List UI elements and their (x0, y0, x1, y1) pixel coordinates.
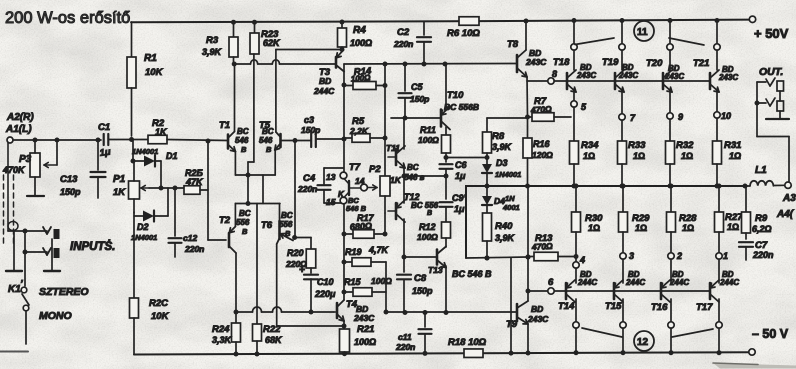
svg-text:243C: 243C (718, 73, 738, 82)
svg-text:47K: 47K (185, 177, 204, 187)
wire C3 tap (294, 141, 296, 238)
svg-text:243C: 243C (525, 57, 547, 67)
resistor R11 (418, 125, 451, 158)
svg-text:A2(R): A2(R) (6, 112, 34, 123)
svg-text:220n: 220n (393, 39, 413, 49)
svg-text:244C: 244C (577, 278, 597, 287)
svg-text:14: 14 (355, 176, 365, 186)
wire T3 emitter bus (344, 62, 517, 72)
svg-text:’: ’ (20, 279, 23, 290)
svg-text:2: 2 (676, 251, 682, 261)
pot P2 (368, 164, 402, 213)
resistor R30 (572, 184, 604, 263)
transistor T7 (338, 162, 367, 213)
svg-text:10K: 10K (151, 311, 170, 322)
svg-text:+ 50V: + 50V (754, 26, 789, 41)
node 8 (548, 69, 557, 84)
svg-text:BC: BC (237, 127, 249, 136)
svg-text:3,3K: 3,3K (212, 335, 233, 345)
transistor T10 (441, 90, 479, 130)
svg-text:T20: T20 (646, 58, 663, 69)
svg-text:546: 546 (235, 136, 249, 145)
resistor R6 (447, 17, 480, 39)
svg-text:R2C: R2C (149, 298, 168, 309)
resistor R21 (340, 321, 377, 356)
resistor R13 (528, 233, 579, 261)
resistor R24 (212, 312, 241, 357)
svg-text:1K: 1K (155, 127, 168, 137)
resistor R15 (344, 276, 392, 296)
capacitor C13 (60, 140, 106, 198)
svg-text:C13: C13 (60, 174, 78, 185)
transistor T17 (696, 270, 739, 313)
svg-text:T18: T18 (553, 57, 570, 68)
wire long feedback bottom (236, 307, 334, 312)
resistor R2 (132, 118, 228, 144)
svg-text:220n: 220n (184, 244, 204, 254)
svg-text:150p: 150p (60, 187, 81, 197)
OUT connector (755, 66, 790, 137)
svg-text:R33: R33 (628, 140, 646, 151)
svg-text:R18 10Ω: R18 10Ω (448, 337, 487, 348)
transistor T18 (553, 57, 596, 92)
resistor R17 (344, 213, 375, 238)
svg-text:R19: R19 (345, 247, 362, 257)
scan smudge (0, 352, 796, 369)
transistor T8 (507, 39, 547, 77)
svg-text:243C: 243C (527, 314, 549, 324)
svg-text:244C: 244C (669, 278, 689, 287)
+50V rail (131, 16, 756, 22)
pot P3 (2, 140, 57, 196)
wire aux drop (509, 258, 514, 356)
svg-text:BC: BC (262, 127, 274, 136)
resistor R3 (202, 20, 238, 64)
svg-text:9: 9 (678, 112, 683, 122)
svg-text:A1(L): A1(L) (5, 124, 32, 135)
terminal A1/A2 input (5, 112, 34, 143)
svg-text:1K: 1K (390, 175, 402, 185)
diode D2 (131, 188, 168, 242)
wire input to C1 (13, 138, 101, 143)
svg-text:B: B (242, 227, 248, 236)
svg-text:R8: R8 (492, 131, 505, 142)
INPUTS label (70, 240, 115, 253)
transistor T2 (219, 209, 251, 253)
svg-text:243C: 243C (618, 71, 638, 80)
pot P1 (113, 161, 149, 213)
svg-text:244C: 244C (719, 278, 739, 287)
svg-text:1Ω: 1Ω (635, 223, 647, 233)
svg-text:6,2Ω: 6,2Ω (752, 224, 772, 234)
node 13 (326, 172, 347, 182)
svg-text:1N4001: 1N4001 (132, 147, 158, 156)
svg-text:R6 10Ω: R6 10Ω (447, 28, 480, 39)
+50V label (754, 26, 789, 41)
svg-text:R4: R4 (353, 25, 366, 36)
wire T5 collector to R4 node (276, 47, 345, 132)
resistor R20 (285, 248, 316, 273)
svg-text:D3: D3 (496, 158, 508, 168)
svg-text:C8: C8 (414, 273, 427, 284)
wire tail to R22 (256, 204, 258, 325)
svg-text:220n: 220n (752, 250, 774, 260)
svg-text:D1: D1 (166, 151, 178, 161)
svg-text:10K: 10K (145, 67, 164, 78)
resistor R23 (250, 20, 281, 54)
wire R40 bus (466, 255, 531, 261)
svg-text:T1: T1 (219, 120, 230, 131)
diode D3 (482, 158, 521, 189)
wire T8 emitter column (525, 77, 530, 120)
shielded cable (4, 143, 19, 247)
node 2 (668, 251, 682, 283)
svg-text:244C: 244C (625, 278, 645, 287)
resistor R2B (184, 139, 211, 241)
svg-text:2,2K: 2,2K (349, 126, 369, 136)
svg-text:A4(: A4( (776, 209, 795, 220)
SZTEREO label (39, 286, 89, 298)
resistor R2C (130, 212, 170, 355)
svg-text:220n: 220n (297, 184, 317, 194)
wire T13 base (404, 256, 437, 258)
svg-text:C1: C1 (98, 122, 110, 133)
node 5 (571, 89, 587, 112)
svg-text:D2: D2 (137, 222, 149, 232)
wire collector T21 (714, 18, 720, 70)
wire T6 collector down (276, 244, 278, 326)
svg-text:T17: T17 (696, 302, 713, 313)
svg-text:BD: BD (319, 76, 331, 86)
resistor R28 (667, 184, 698, 254)
resistor R27 (715, 184, 744, 254)
svg-text:T8: T8 (507, 39, 519, 50)
svg-text:T19: T19 (602, 57, 619, 68)
resistor R19 (344, 245, 390, 266)
svg-text:1N4001: 1N4001 (131, 233, 157, 242)
resistor R18 (448, 337, 487, 357)
svg-text:100Ω: 100Ω (417, 232, 438, 242)
svg-text:C2: C2 (397, 27, 410, 38)
wire T2 emitter (234, 204, 236, 227)
transistor T14 (558, 270, 597, 312)
transistor T9 (506, 301, 549, 330)
svg-text:T11: T11 (386, 143, 400, 153)
MONO label (39, 310, 72, 322)
capacitor C3 (301, 115, 344, 147)
resistor R16 (523, 117, 553, 189)
wire collector T15 (620, 299, 626, 355)
node 14 (355, 176, 367, 191)
svg-text:13: 13 (326, 172, 336, 182)
svg-text:150p: 150p (410, 94, 429, 104)
svg-text:R40: R40 (495, 221, 513, 232)
capacitor C5 (399, 64, 430, 121)
svg-text:15: 15 (326, 197, 336, 207)
diode D4 (482, 186, 520, 213)
wire T5 base to C3 (281, 138, 312, 143)
input jack 1 (6, 227, 60, 271)
transistor T15 (605, 270, 645, 312)
svg-text:R11: R11 (420, 125, 436, 135)
svg-text:P1: P1 (113, 174, 126, 185)
svg-text:P2: P2 (369, 164, 381, 175)
svg-text:1Ω: 1Ω (681, 151, 693, 161)
terminal A3/A4 (776, 193, 796, 220)
svg-text:1μ: 1μ (455, 171, 466, 181)
wire VAS column (343, 72, 345, 173)
svg-text:L1: L1 (755, 165, 767, 176)
svg-text:1Ω: 1Ω (588, 223, 600, 233)
wire R5/R14 to P2 (384, 64, 386, 176)
transistor T13 (428, 247, 492, 280)
output rail (node OUT) (466, 186, 747, 258)
svg-text:470Ω: 470Ω (531, 241, 554, 252)
svg-text:546 B: 546 B (346, 204, 367, 213)
wire collector T14 (573, 299, 579, 355)
svg-text:10: 10 (721, 111, 731, 121)
wire bottom bus (386, 310, 511, 315)
svg-text:R24: R24 (212, 324, 230, 335)
svg-text:OUT.: OUT. (759, 66, 783, 78)
wire T1 collector (234, 64, 236, 132)
wire T9 emitter column (526, 186, 531, 301)
svg-text:c3: c3 (304, 115, 314, 125)
wire T8 collector (524, 19, 529, 51)
wire T1 collector bus to T3 base (232, 60, 335, 67)
svg-text:R32: R32 (676, 140, 694, 151)
resistor R4 (338, 20, 373, 52)
resistor R31 (713, 118, 742, 189)
-50V rail (134, 349, 755, 355)
svg-text:200 W-os erősítő: 200 W-os erősítő (5, 9, 130, 27)
svg-text:BC 556B: BC 556B (444, 102, 479, 112)
svg-text:R12: R12 (419, 222, 436, 232)
svg-text:T15: T15 (605, 301, 622, 312)
transistor T1 (219, 120, 249, 154)
svg-text:6: 6 (548, 277, 554, 288)
svg-text:R15: R15 (344, 277, 362, 287)
svg-text:100Ω: 100Ω (351, 73, 372, 83)
svg-text:R31: R31 (724, 140, 741, 151)
resistor R8 (483, 131, 513, 158)
svg-text:B: B (241, 145, 247, 154)
svg-text:220n: 220n (395, 342, 415, 352)
wire R12 to T13 (445, 238, 447, 247)
svg-text:68K: 68K (265, 335, 283, 345)
svg-text:– 50 V: – 50 V (752, 327, 789, 341)
capacitor C4 (297, 168, 343, 203)
svg-text:T10: T10 (447, 90, 464, 101)
wire R11 bottom to R8 (444, 155, 490, 160)
svg-text:244C: 244C (313, 86, 335, 96)
svg-text:12: 12 (637, 337, 649, 348)
svg-text:4: 4 (579, 255, 585, 265)
wire T6 emitter to R20 (292, 235, 311, 249)
input jack 2 (23, 239, 61, 271)
wire OUT connector to output (757, 137, 789, 182)
svg-text:4,7K: 4,7K (368, 245, 390, 255)
transistor T11 (386, 143, 425, 182)
wire collector T18 (571, 18, 577, 70)
node 4 (573, 255, 585, 283)
svg-text:243C: 243C (353, 313, 375, 323)
node 10 (714, 89, 731, 121)
resistor R5 (342, 116, 388, 142)
svg-text:1μ: 1μ (454, 204, 465, 214)
wire base bus bottom (528, 290, 710, 292)
svg-text:1Ω: 1Ω (727, 222, 739, 232)
resistor R9 (742, 186, 772, 239)
svg-text:R21: R21 (357, 324, 374, 335)
circled node 11 (575, 21, 704, 45)
circled node 12 (582, 328, 713, 351)
node 3 (620, 251, 634, 283)
svg-text:T14: T14 (558, 301, 575, 312)
transistor T3 (313, 51, 344, 96)
svg-text:c11: c11 (398, 332, 412, 342)
wire T13 emitter (445, 266, 447, 312)
node 7 (619, 89, 636, 123)
svg-text:680Ω: 680Ω (350, 221, 373, 232)
svg-text:556: 556 (236, 218, 250, 227)
svg-text:INPUTṠ.: INPUTṠ. (70, 240, 115, 253)
svg-text:+: + (299, 265, 305, 276)
svg-text:1Ω: 1Ω (682, 223, 694, 233)
node input junction (129, 137, 134, 142)
svg-text:P3: P3 (19, 154, 32, 165)
resistor R33 (618, 120, 647, 189)
svg-text:C6: C6 (455, 160, 467, 170)
svg-text:100Ω: 100Ω (354, 337, 376, 347)
svg-text:556: 556 (279, 220, 293, 229)
wire collector T19 (619, 18, 625, 70)
svg-text:BC: BC (407, 163, 419, 172)
switch K1 (8, 231, 29, 344)
node 6 (548, 277, 554, 294)
wire P2 bottom to R17 (374, 213, 388, 237)
svg-text:3,9K: 3,9K (202, 47, 223, 57)
transistor T21 (693, 58, 738, 92)
wire T6 branch to T4 emitter (277, 324, 347, 329)
transistor T19 (602, 57, 638, 92)
wire base T1 to T2 (208, 239, 226, 241)
capacitor C2 (393, 22, 431, 65)
wire feedback right column (384, 262, 389, 315)
svg-text:11: 11 (637, 27, 648, 38)
resistor R40 (483, 213, 516, 261)
svg-text:100Ω: 100Ω (350, 38, 372, 48)
svg-text:A3: A3 (782, 193, 796, 204)
wire T11 collector (403, 118, 405, 149)
svg-text:243C: 243C (664, 72, 684, 81)
wire T10 base (391, 117, 441, 119)
wire emitter network (235, 150, 280, 206)
wire bias row (149, 186, 184, 191)
wire T6 base (279, 204, 281, 222)
svg-text:1: 1 (723, 251, 728, 261)
svg-text:C9’: C9’ (452, 193, 467, 203)
resistor R1 (127, 22, 164, 136)
svg-text:BD: BD (531, 304, 543, 314)
transistor T4 (334, 299, 375, 323)
svg-text:120Ω: 120Ω (532, 150, 553, 160)
wire T2 collector to R24 (234, 253, 239, 315)
wire emitters to C6/C9 junction (404, 174, 449, 179)
svg-text:T9: T9 (506, 319, 518, 330)
svg-text:3,9K: 3,9K (495, 233, 516, 243)
svg-text:470K: 470K (2, 165, 26, 175)
svg-text:R16: R16 (533, 139, 551, 149)
wire collector T20 (667, 18, 673, 70)
wire collector T17 (716, 299, 722, 355)
svg-text:C4: C4 (303, 173, 316, 184)
diode D1 (131, 139, 178, 188)
svg-text:1N4001: 1N4001 (495, 170, 521, 179)
capacitor C1 (98, 122, 130, 159)
resistor R34 (570, 107, 600, 189)
svg-text:BC 546 B: BC 546 B (452, 269, 492, 279)
wire R8 top (487, 118, 528, 132)
svg-text:R3: R3 (206, 35, 219, 46)
svg-text:BC: BC (281, 211, 293, 220)
svg-text:1Ω: 1Ω (729, 151, 741, 161)
node 15 (326, 197, 347, 207)
svg-text:c12: c12 (183, 233, 197, 243)
wire T10 emitter (445, 64, 447, 109)
resistor R29 (619, 184, 651, 254)
wire driver base line top (527, 80, 548, 82)
transistor T16 (651, 270, 689, 313)
svg-text:62K: 62K (263, 38, 281, 48)
svg-text:BC 556: BC 556 (411, 201, 439, 210)
node 9 (667, 89, 683, 122)
svg-text:B: B (285, 229, 291, 238)
wire VAS column lower (342, 204, 347, 300)
svg-text:T2: T2 (219, 215, 231, 226)
svg-text:1μ: 1μ (99, 147, 112, 159)
svg-text:220μ: 220μ (314, 289, 336, 299)
resistor R32 (666, 119, 695, 189)
svg-text:SZTEREO: SZTEREO (39, 286, 89, 298)
capacitor C8 (397, 257, 433, 312)
svg-text:1N: 1N (505, 194, 515, 203)
svg-text:T16: T16 (651, 302, 668, 313)
svg-text:C5: C5 (411, 82, 423, 92)
svg-text:3,9K: 3,9K (492, 142, 513, 152)
svg-text:100Ω: 100Ω (371, 276, 392, 286)
svg-text:C10: C10 (317, 277, 334, 287)
wire base bus top (554, 80, 710, 82)
svg-text:B: B (266, 145, 272, 154)
svg-text:MONO: MONO (39, 310, 72, 322)
svg-text:470Ω: 470Ω (530, 104, 553, 115)
svg-text:T7: T7 (349, 162, 361, 173)
svg-text:100Ω: 100Ω (418, 135, 439, 145)
svg-text:R20: R20 (287, 248, 304, 258)
transistor T12 (396, 192, 439, 222)
svg-text:T21: T21 (693, 58, 709, 69)
svg-text:R34: R34 (581, 140, 599, 151)
capacitor C12 (169, 188, 205, 257)
svg-text:546 в: 546 в (404, 173, 425, 182)
svg-text:BC: BC (239, 209, 251, 218)
transistor T5 (259, 120, 281, 154)
svg-text:4001: 4001 (502, 203, 520, 212)
svg-text:1K: 1K (113, 187, 126, 198)
capacitor C11 (395, 312, 432, 356)
capacitor C6 (440, 158, 468, 181)
